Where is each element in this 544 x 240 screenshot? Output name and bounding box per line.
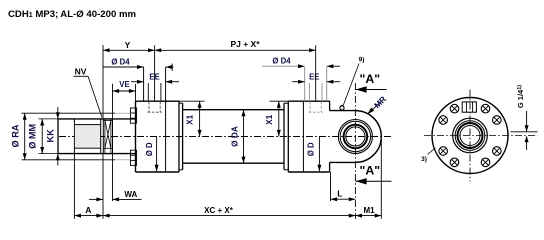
svg-text:M1: M1	[363, 206, 375, 215]
svg-text:Ø RA: Ø RA	[11, 124, 21, 147]
svg-text:Ø MM: Ø MM	[27, 123, 37, 148]
svg-text:NV: NV	[75, 67, 87, 77]
svg-text:VE: VE	[119, 80, 129, 89]
svg-text:L: L	[337, 189, 342, 199]
svg-text:PJ + X*: PJ + X*	[230, 39, 260, 49]
svg-text:9): 9)	[359, 57, 365, 64]
svg-text:A: A	[85, 205, 91, 215]
svg-text:Ø D4: Ø D4	[272, 57, 291, 66]
svg-text:Ø D: Ø D	[307, 142, 316, 156]
svg-text:Ø D4: Ø D4	[111, 58, 130, 67]
svg-text:"A": "A"	[360, 164, 381, 178]
svg-text:XC + X*: XC + X*	[204, 206, 234, 215]
svg-text:X1: X1	[185, 114, 195, 125]
svg-text:EE: EE	[309, 72, 319, 81]
svg-text:Y: Y	[125, 40, 131, 50]
svg-text:Ø D: Ø D	[145, 142, 154, 156]
svg-text:3): 3)	[421, 156, 427, 163]
svg-text:KK: KK	[46, 129, 56, 143]
svg-text:CDH1 MP3;AL-Ø 40-200 mm: CDH1 MP3;AL-Ø 40-200 mm	[8, 9, 136, 20]
svg-text:"A": "A"	[360, 72, 381, 86]
svg-text:X1: X1	[264, 114, 274, 125]
svg-text:WA: WA	[124, 190, 137, 199]
svg-text:Ø DA: Ø DA	[230, 126, 240, 147]
